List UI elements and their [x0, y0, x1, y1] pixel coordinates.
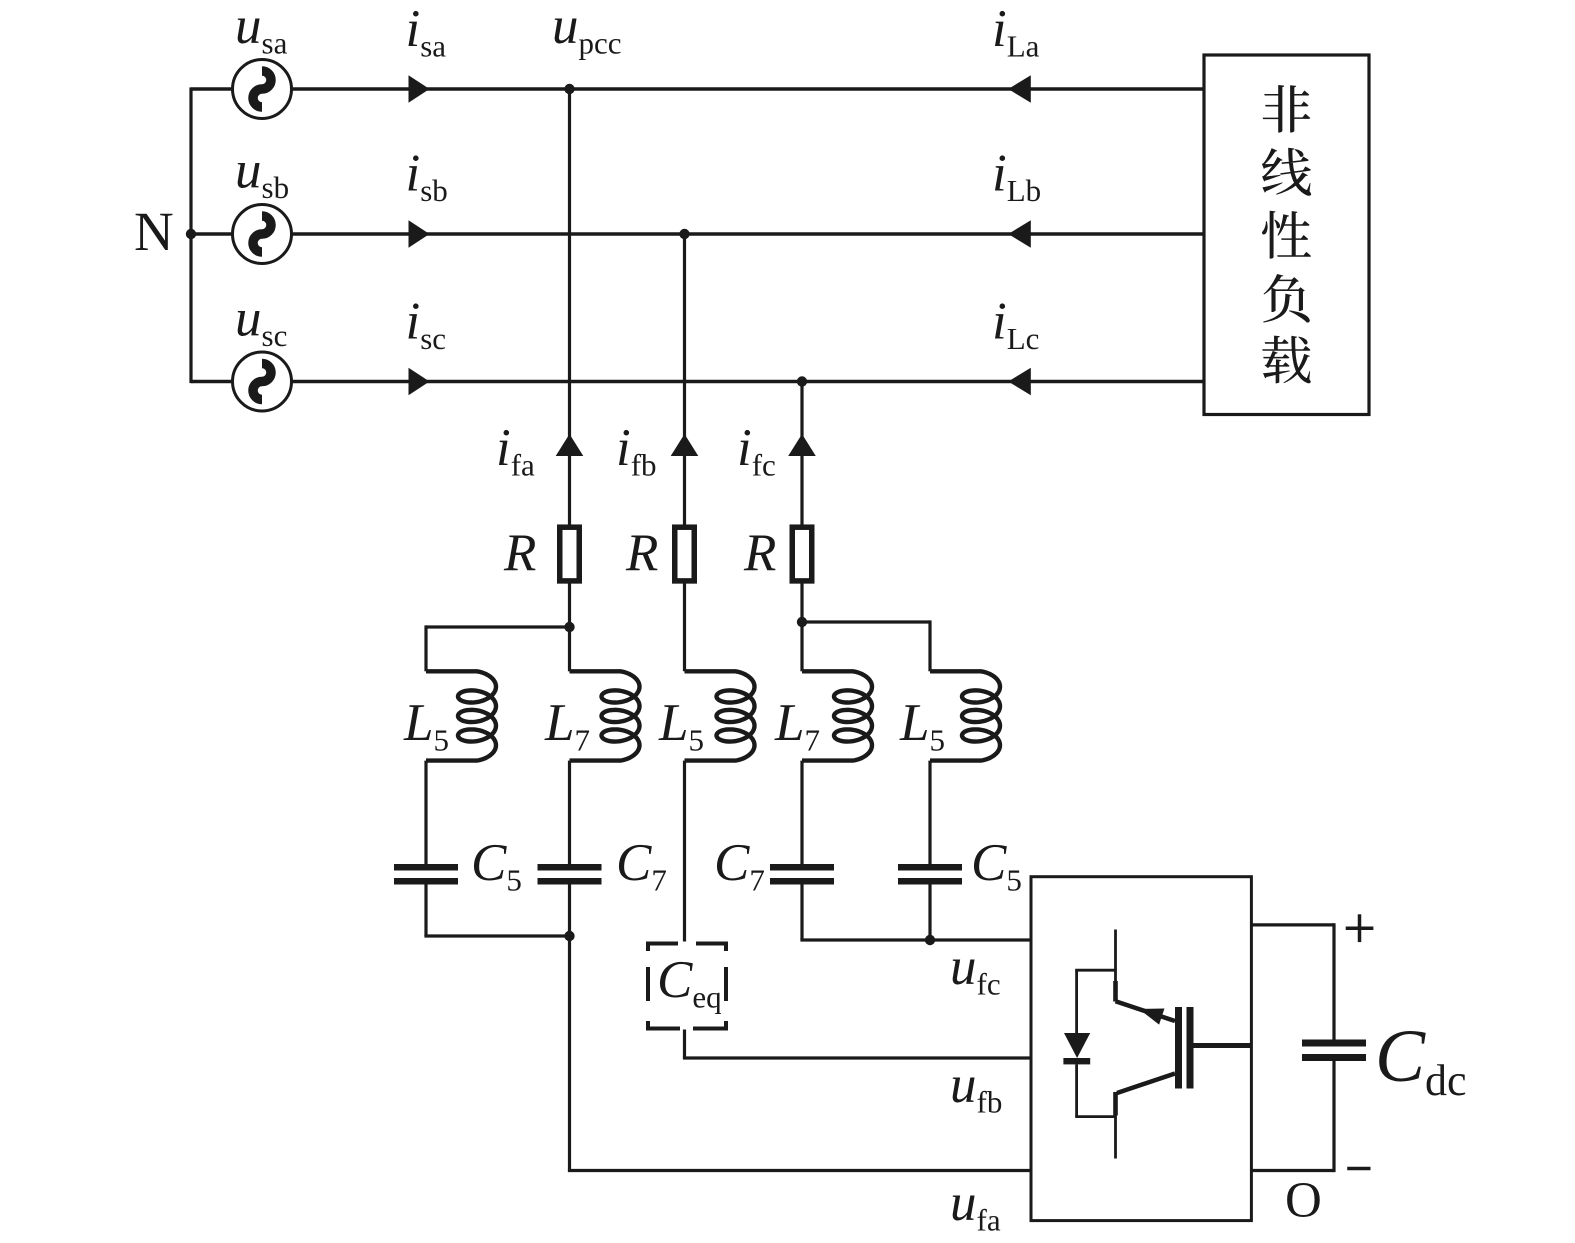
- inductor L7 (branch a): [570, 671, 640, 760]
- inductor L5 (branch c outer): [930, 671, 1000, 760]
- node branch c split junction: [797, 617, 807, 627]
- label C7 c: [714, 834, 765, 898]
- wire u_fa horizontal: [568, 1169, 1031, 1172]
- transistor IGBT Q1: [1113, 930, 1251, 1159]
- label L7 at x=545: [544, 694, 590, 758]
- source u_sc Uc: [233, 352, 292, 411]
- label R a: [503, 524, 536, 582]
- svg-text:R: R: [743, 524, 776, 582]
- wire left neutral bus: [189, 87, 192, 383]
- capacitor C_dc: [1302, 1040, 1366, 1062]
- label i_fb: [616, 419, 657, 483]
- capacitor C_eq dashed box: [648, 942, 726, 1031]
- label R b: [625, 524, 658, 582]
- wire phase c source to load: [292, 380, 1205, 383]
- diode D1 antiparallel: [1063, 970, 1090, 1116]
- label i_Lc: [992, 293, 1039, 357]
- wire branch a down to L7: [568, 627, 571, 671]
- wire L7c to C7c: [800, 761, 803, 864]
- wire branch a split left: [426, 625, 570, 671]
- label L5 at x=404: [403, 694, 449, 758]
- wire dc bottom: [1251, 1061, 1334, 1172]
- wire join a horizontal: [424, 934, 569, 937]
- svg-text:R: R: [503, 524, 536, 582]
- node u_pcc junction: [564, 84, 574, 94]
- node branch a split junction: [564, 622, 574, 632]
- label nonlinear load (Chinese): [1262, 85, 1311, 383]
- wire L5b to Ceq: [683, 761, 686, 942]
- arrow i_sc: [409, 368, 430, 396]
- wire branch b resistor to L5: [683, 581, 686, 671]
- label N: [134, 201, 174, 262]
- arrow i_fc: [788, 434, 816, 456]
- arrow i_fb: [671, 434, 699, 456]
- wire diode bottom connect: [1075, 1115, 1115, 1118]
- label i_La: [992, 0, 1040, 64]
- wire phase c bus to source: [191, 380, 233, 383]
- label u_pcc: [552, 0, 622, 61]
- node join c junction: [925, 935, 935, 945]
- label C_dc: [1375, 1015, 1467, 1105]
- node phase c tap junction: [797, 376, 807, 386]
- resistor R (phase a): [560, 527, 580, 581]
- wire branch a vertical upper: [568, 89, 571, 527]
- label minus: [1347, 1167, 1370, 1171]
- label u_fb: [950, 1056, 1002, 1120]
- source u_sa Ua: [233, 60, 292, 119]
- label u_fa: [950, 1174, 1001, 1238]
- arrow i_sa: [409, 75, 430, 103]
- wire C5a below: [424, 885, 427, 937]
- capacitor C7 (branch c): [770, 864, 834, 885]
- wire phase a source to load: [292, 87, 1205, 90]
- arrow i_Lb: [1008, 220, 1031, 248]
- wire branch b vertical upper: [683, 234, 686, 527]
- wire branch c vertical upper: [800, 382, 803, 528]
- svg-text:O: O: [1285, 1173, 1322, 1229]
- wire join a down: [568, 936, 571, 1171]
- node join a junction: [564, 931, 574, 941]
- label i_fa: [496, 419, 535, 483]
- wire phase a bus to source: [191, 87, 233, 90]
- source u_sb Ub: [233, 205, 292, 264]
- nonlinear load box: [1204, 55, 1369, 415]
- wire C7c below: [800, 885, 803, 941]
- label u_sc: [235, 290, 287, 354]
- wire u_fb horizontal: [683, 1056, 1031, 1059]
- wire L7a to C7a: [568, 761, 571, 864]
- svg-text:R: R: [625, 524, 658, 582]
- svg-text:N: N: [134, 201, 174, 262]
- wire phase b bus to source: [191, 232, 233, 235]
- label i_sa: [406, 0, 447, 64]
- label C_eq: [657, 951, 722, 1015]
- wire branch a resistor to junction: [568, 581, 571, 627]
- label u_sa: [235, 0, 288, 61]
- label i_sb: [406, 145, 448, 209]
- label C5 c: [971, 834, 1022, 898]
- capacitor C7 (branch a): [538, 864, 602, 885]
- wire L5a to C5a: [424, 761, 427, 864]
- label L5 at x=900: [899, 694, 945, 758]
- label plus: [1346, 914, 1374, 942]
- arrow i_sb: [409, 220, 430, 248]
- converter box: [1031, 877, 1251, 1221]
- label i_fc: [737, 419, 776, 483]
- wire C5c below: [928, 885, 931, 941]
- label R c: [743, 524, 776, 582]
- wire L5c to C5c: [928, 761, 931, 864]
- label L5 at x=659: [658, 694, 704, 758]
- label C5 a: [471, 834, 522, 898]
- wire diode top connect: [1075, 969, 1115, 972]
- label i_sc: [406, 293, 447, 357]
- wire branch c resistor to junction: [800, 581, 803, 622]
- label C7 a: [616, 834, 667, 898]
- capacitor C5 (branch c outer): [898, 864, 962, 885]
- wire C7a below: [568, 885, 571, 937]
- label u_sb: [235, 142, 289, 206]
- label u_fc: [950, 938, 1001, 1002]
- inductor L5 (branch b): [685, 671, 755, 760]
- label L7 at x=775: [774, 694, 820, 758]
- wire Ceq to u_fb corner: [683, 1030, 686, 1059]
- capacitor C5 (branch a outer): [394, 864, 458, 885]
- wire u_fc horizontal: [800, 938, 1031, 941]
- wire dc top: [1251, 923, 1334, 1039]
- node N junction: [186, 229, 196, 239]
- resistor R (phase c): [792, 527, 812, 581]
- inductor L7 (branch c): [802, 671, 872, 760]
- label O: [1285, 1173, 1322, 1229]
- wire phase b source to load: [292, 232, 1205, 235]
- arrow i_fa: [556, 434, 584, 456]
- wire branch c down to L7: [800, 622, 803, 671]
- inductor L5 (branch a outer): [426, 671, 496, 760]
- arrow i_La: [1008, 75, 1031, 103]
- wire branch c split right: [802, 620, 930, 671]
- label i_Lb: [992, 145, 1041, 209]
- resistor R (phase b): [675, 527, 695, 581]
- arrow i_Lc: [1008, 368, 1031, 396]
- node phase b tap junction: [679, 229, 689, 239]
